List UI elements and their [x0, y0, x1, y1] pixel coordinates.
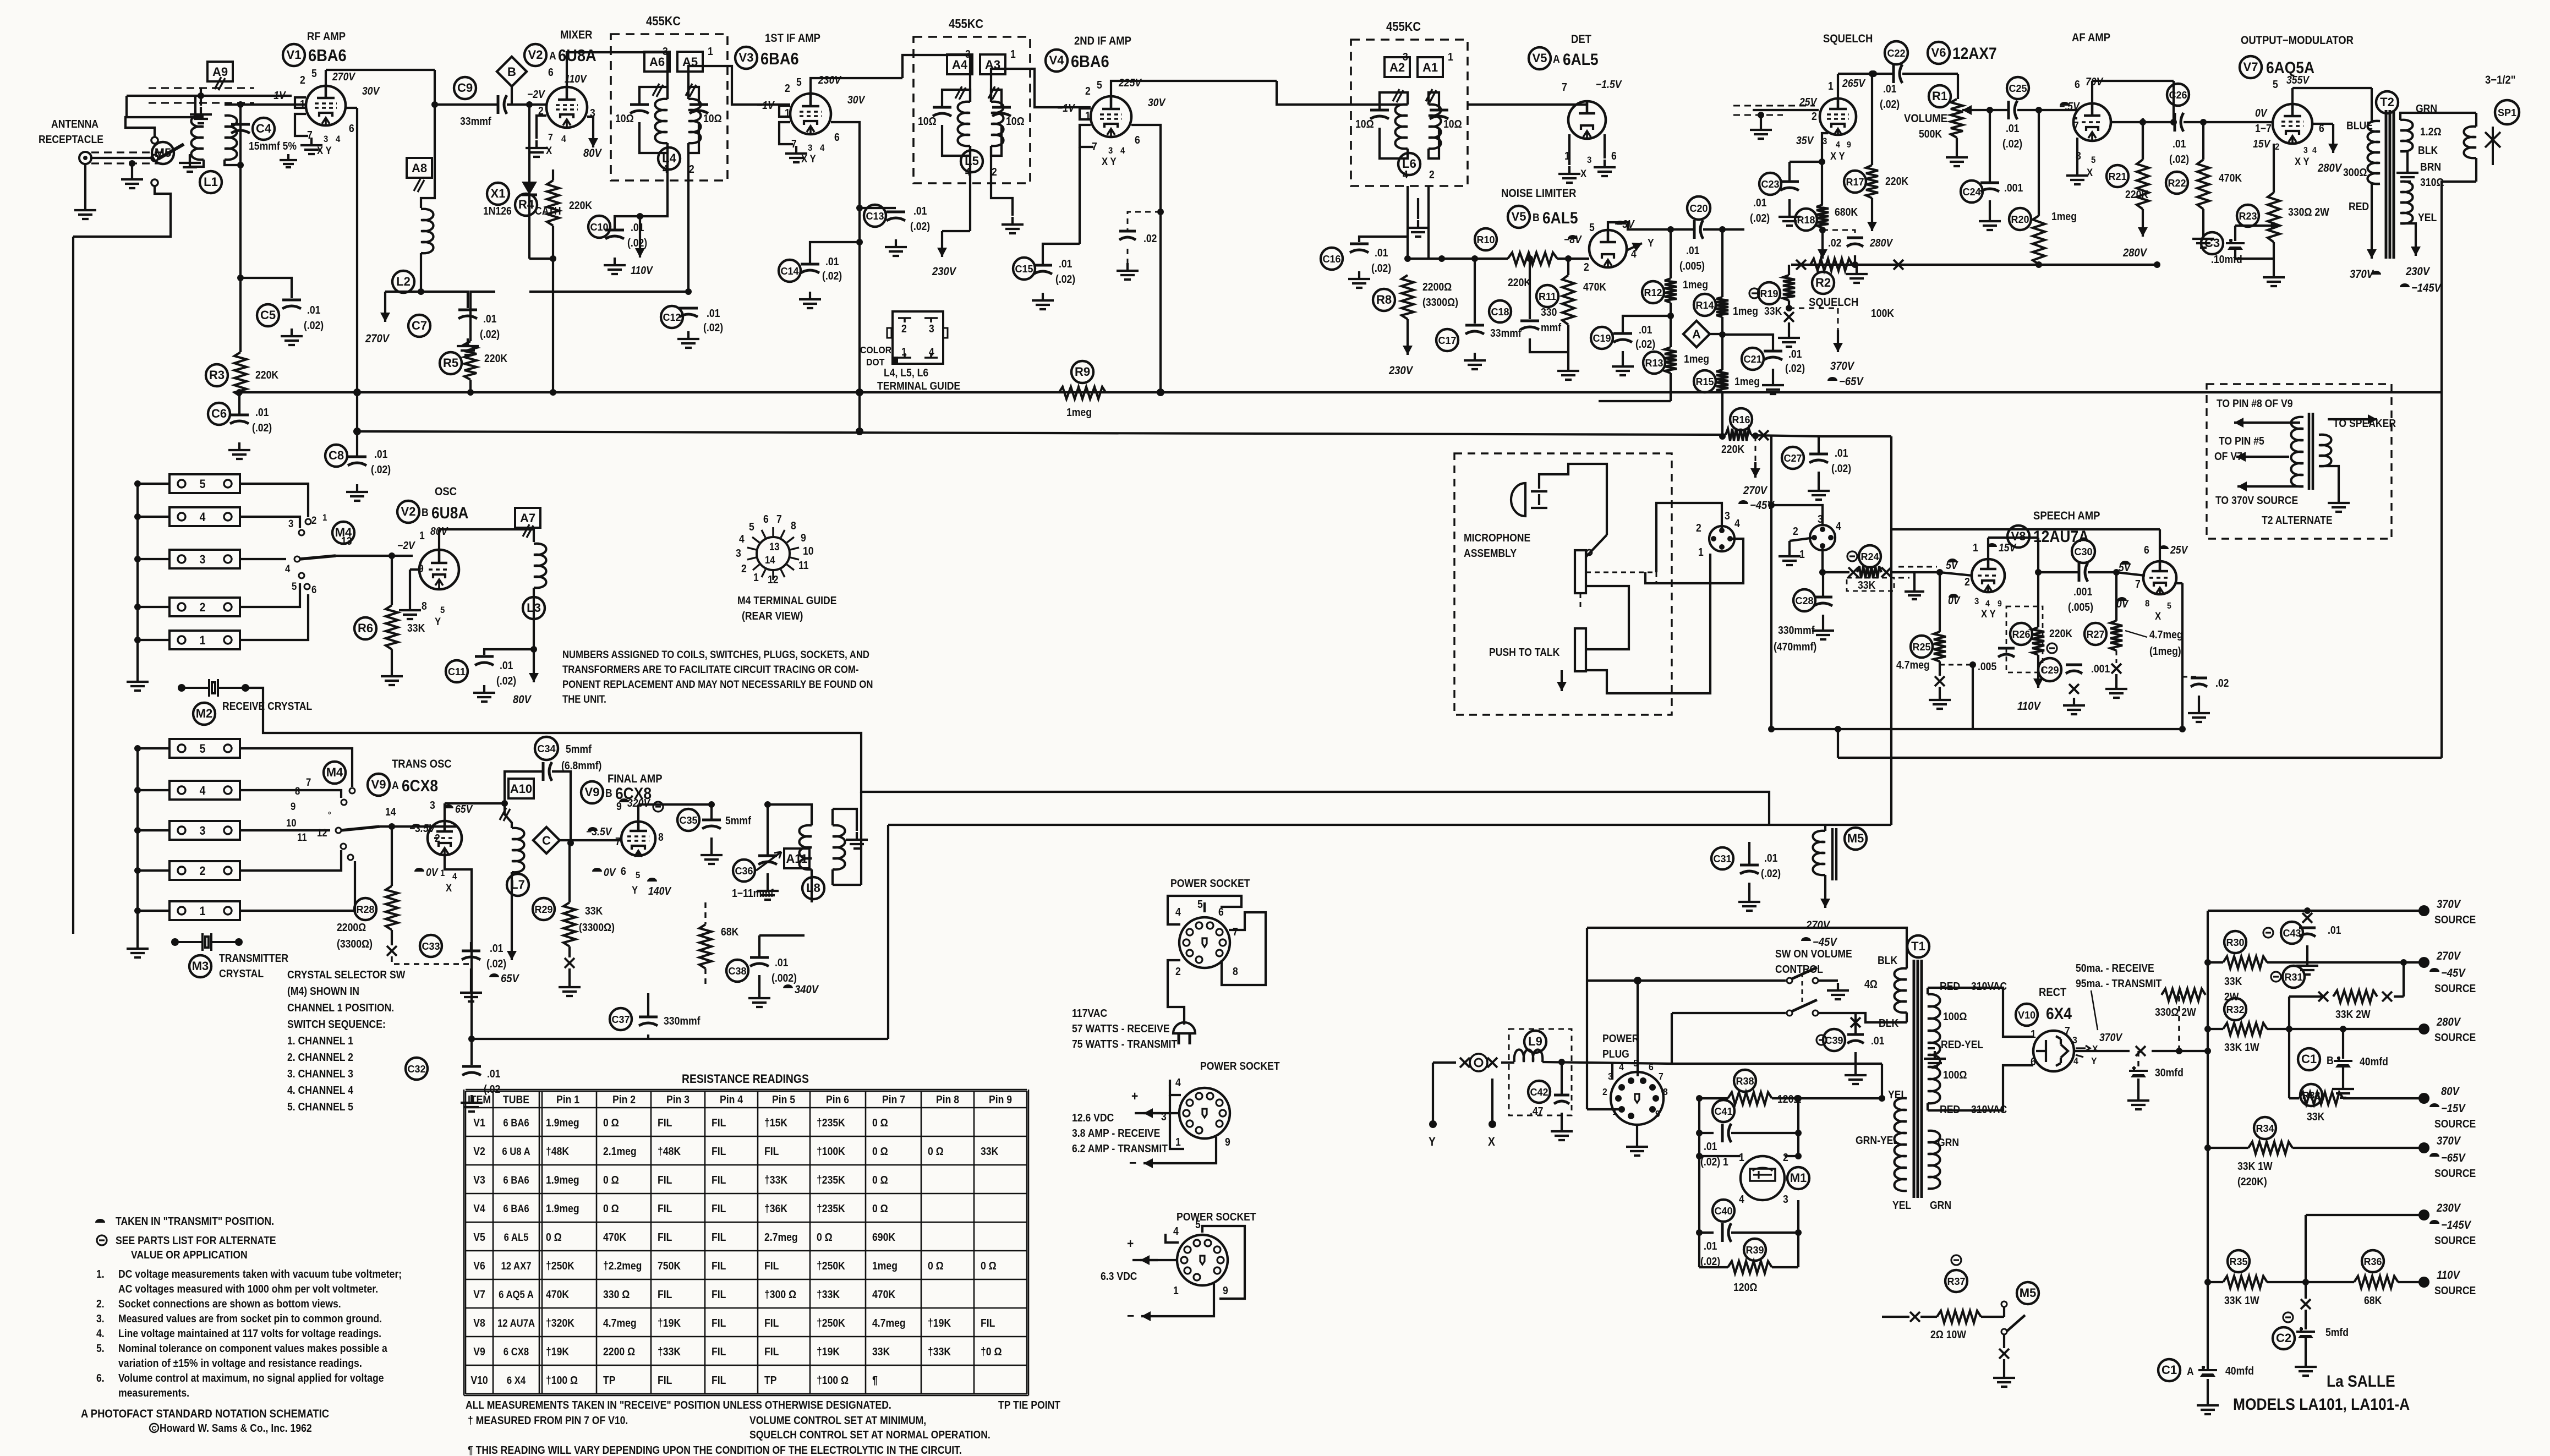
wire ch3 [240, 558, 286, 560]
designator L1 [200, 171, 222, 193]
svg-text:4: 4 [929, 346, 934, 358]
transformer T1 core [1914, 960, 1922, 1198]
svg-text:M5: M5 [1847, 831, 1864, 845]
wire riser to V8 plates [1890, 436, 1892, 529]
designator A6 [644, 52, 670, 72]
node B [497, 57, 527, 86]
svg-text:SEE PARTS LIST FOR ALTERNATE: SEE PARTS LIST FOR ALTERNATE [116, 1234, 276, 1246]
svg-text:100K: 100K [1871, 307, 1894, 319]
ground [190, 107, 212, 123]
svg-text:GRN-YEL: GRN-YEL [1856, 1134, 1899, 1146]
wire [811, 869, 813, 902]
designator C5 [257, 304, 279, 326]
designator C38 [726, 960, 748, 982]
wire [138, 558, 169, 560]
ground [701, 847, 723, 864]
designator L5 [961, 150, 983, 172]
svg-text:2: 2 [200, 601, 206, 614]
designator V6 [1928, 42, 1950, 64]
svg-text:FIL: FIL [712, 1345, 726, 1358]
coil L8 secondary [833, 825, 845, 869]
svg-text:0 Ω: 0 Ω [928, 1145, 944, 1157]
crystal holder channel 1 [169, 631, 240, 649]
socket 2 wires [1170, 1080, 1181, 1095]
svg-text:6BA6: 6BA6 [760, 50, 799, 68]
tube V10 6X4 rectifier [2033, 1031, 2074, 1071]
designator C34 [535, 737, 558, 760]
wire to C5 [240, 278, 292, 298]
svg-text:TP: TP [764, 1374, 776, 1386]
wire dashed to .02 [1128, 212, 1161, 230]
svg-text:1: 1 [1612, 1106, 1617, 1117]
svg-text:470K: 470K [2219, 172, 2242, 184]
svg-text:8: 8 [1663, 1086, 1668, 1097]
wire [2111, 121, 2143, 123]
coil T2alt primary [2291, 417, 2304, 486]
svg-text:4: 4 [285, 563, 290, 574]
wire [1818, 472, 1820, 483]
svg-text:2200 Ω: 2200 Ω [603, 1345, 635, 1358]
wire [239, 165, 242, 237]
wire [138, 910, 169, 912]
wire [1790, 161, 1822, 163]
wire [131, 163, 133, 172]
svg-text:†19K: †19K [817, 1345, 840, 1358]
IF transformer L6 dashed box [1351, 40, 1468, 186]
svg-text:V7: V7 [2243, 60, 2258, 74]
wire [2432, 112, 2476, 114]
wire [1567, 325, 1569, 363]
svg-text:1ST IF AMP: 1ST IF AMP [765, 32, 820, 45]
svg-text:2: 2 [741, 562, 747, 574]
wire [2343, 1097, 2424, 1099]
svg-text:Pin 9: Pin 9 [989, 1093, 1012, 1105]
svg-text:370V: 370V [2099, 1031, 2122, 1043]
capacitor C23 [1780, 180, 1799, 183]
svg-text:(M4) SHOWN IN: (M4) SHOWN IN [287, 985, 359, 997]
svg-text:5mfd: 5mfd [2325, 1326, 2349, 1338]
svg-text:110V: 110V [565, 73, 587, 85]
wire [1710, 333, 1722, 335]
junction [1558, 1059, 1565, 1065]
trimmer arrow A7 [523, 524, 533, 538]
wire [991, 125, 1002, 156]
wire [833, 809, 857, 831]
svg-text:THE UNIT.: THE UNIT. [562, 693, 606, 705]
capacitor C15 [1033, 264, 1052, 267]
table grid [464, 1090, 1028, 1395]
wire [1586, 586, 1629, 649]
tube V6B AF amp [2073, 103, 2111, 141]
svg-text:R4: R4 [518, 198, 534, 211]
svg-text:V7: V7 [473, 1288, 485, 1300]
svg-text:†250K: †250K [817, 1260, 845, 1272]
svg-text:270V: 270V [2436, 950, 2461, 962]
wire [435, 103, 498, 106]
junction [1526, 255, 1533, 262]
designator V9 [581, 781, 603, 803]
svg-text:4.7meg: 4.7meg [2149, 628, 2183, 641]
wire [1838, 73, 1894, 75]
svg-text:9: 9 [1847, 140, 1851, 150]
svg-text:C31: C31 [1713, 853, 1731, 864]
svg-text:0 Ω: 0 Ω [981, 1260, 997, 1272]
svg-text:Measured values are from socke: Measured values are from socket pin to c… [118, 1312, 382, 1324]
wire [767, 804, 769, 856]
wire [2179, 1050, 2208, 1052]
wire [1818, 979, 1838, 982]
svg-text:.01: .01 [1686, 244, 1699, 256]
capacitor C3 electrolytic [2226, 239, 2245, 243]
svg-text:5: 5 [200, 478, 206, 491]
switch M5 antenna changeover [151, 137, 158, 144]
junction [550, 255, 556, 262]
wire ch2 [240, 850, 341, 871]
designator C25 [2007, 77, 2029, 99]
svg-text:X: X [1488, 1135, 1495, 1148]
capacitor C7 [458, 309, 477, 311]
ground [1979, 214, 2001, 230]
svg-text:M5: M5 [155, 146, 172, 160]
wire [1854, 255, 1856, 265]
designator R4 [515, 194, 537, 216]
svg-text:C6: C6 [211, 407, 227, 420]
designator R9 [1071, 361, 1093, 383]
svg-text:−45V: −45V [1813, 936, 1837, 949]
svg-text:PUSH TO TALK: PUSH TO TALK [1489, 646, 1560, 658]
svg-text:1: 1 [1799, 548, 1805, 560]
svg-text:R30: R30 [2226, 937, 2244, 948]
wire [2207, 1282, 2209, 1370]
junction [856, 239, 863, 245]
wire to L3 [495, 529, 534, 542]
wire [445, 802, 505, 804]
wire [138, 747, 169, 749]
svg-text:.01: .01 [631, 221, 644, 233]
wire [2342, 1068, 2344, 1081]
node C [533, 827, 560, 853]
ground [677, 331, 699, 348]
wire [239, 278, 242, 352]
svg-text:(.02): (.02) [480, 328, 500, 340]
svg-text:.01: .01 [307, 304, 320, 316]
junction [1157, 388, 1164, 396]
resistor R18 [1816, 205, 1829, 228]
wire V4 screen down [1131, 125, 1161, 392]
svg-text:V10: V10 [2018, 1010, 2035, 1021]
svg-text:225V: 225V [1118, 76, 1142, 89]
transformer T2 core [2386, 110, 2394, 259]
coil T2alt secondary [2319, 435, 2332, 467]
svg-text:V4: V4 [473, 1202, 485, 1214]
wire shield dash [1898, 566, 1937, 568]
svg-text:12: 12 [317, 827, 327, 839]
wire [2181, 677, 2184, 729]
svg-text:5: 5 [311, 67, 317, 79]
svg-text:V5: V5 [1512, 210, 1526, 223]
svg-text:5. CHANNEL 5: 5. CHANNEL 5 [287, 1101, 353, 1113]
junction [1870, 70, 1877, 77]
svg-text:2: 2 [1584, 261, 1589, 273]
designator C21 [1742, 348, 1764, 370]
wire [1561, 1062, 1563, 1095]
svg-text:(.02): (.02) [496, 675, 516, 687]
wire [2116, 650, 2117, 663]
svg-text:.01: .01 [825, 255, 839, 267]
terminal 280V SOURCE [2418, 1023, 2429, 1034]
svg-text:3: 3 [1725, 510, 1730, 522]
designator R24 [1859, 545, 1881, 567]
svg-text:0 Ω: 0 Ω [817, 1231, 833, 1243]
junction [1471, 255, 1478, 262]
svg-text:MICROPHONE: MICROPHONE [1464, 532, 1530, 544]
ground [1827, 983, 1849, 999]
svg-text:R2: R2 [1815, 276, 1831, 289]
svg-text:B: B [605, 787, 612, 799]
svg-text:A: A [1553, 53, 1560, 65]
wire [1604, 134, 1606, 158]
wire [410, 568, 419, 571]
ground [461, 1095, 483, 1112]
svg-text:100Ω: 100Ω [1943, 1010, 1967, 1022]
designator M1 [1787, 1167, 1809, 1189]
designator C36 [733, 860, 755, 882]
wire [469, 380, 472, 392]
wire [472, 1038, 888, 1040]
svg-text:SOURCE: SOURCE [2434, 1284, 2476, 1296]
capacitor C24 [1980, 182, 1999, 184]
svg-text:R13: R13 [1645, 358, 1663, 369]
ground [1779, 209, 1801, 226]
designator C24 [1961, 180, 1983, 202]
designator C31 [1711, 847, 1733, 869]
wire ch4 [240, 790, 341, 798]
capacitor C21 [1764, 350, 1782, 353]
ground [559, 979, 581, 996]
junction [1819, 227, 1826, 233]
ground [1738, 894, 1760, 911]
designator R21 [2106, 165, 2128, 187]
svg-text:220K: 220K [1721, 443, 1744, 455]
wire [239, 105, 242, 165]
svg-text:6X4: 6X4 [2046, 1004, 2072, 1022]
svg-text:A10: A10 [510, 782, 532, 796]
wire B+ ladder bus [2207, 911, 2209, 1282]
fuse symbol [1470, 1054, 1487, 1071]
designator R11 [1536, 285, 1558, 307]
svg-text:TRANSFORMERS ARE TO FACILIT: TRANSFORMERS ARE TO FACILITATE CIRCUIT T… [562, 664, 858, 675]
wire [391, 826, 393, 886]
svg-text:1.9meg: 1.9meg [546, 1174, 579, 1186]
designator R39 [1744, 1239, 1766, 1261]
junction [1565, 255, 1572, 262]
svg-text:R19: R19 [1760, 288, 1778, 299]
wire [2289, 995, 2323, 998]
svg-text:3−1/2": 3−1/2" [2485, 74, 2515, 86]
wire [125, 96, 128, 118]
svg-text:Pin 1: Pin 1 [556, 1093, 579, 1105]
svg-text:9: 9 [801, 532, 806, 544]
svg-text:0 Ω: 0 Ω [872, 1145, 888, 1157]
wire dashed [1940, 664, 1973, 666]
junction [2340, 1026, 2346, 1032]
svg-text:ANTENNA: ANTENNA [51, 118, 99, 130]
designator C2 [2273, 1327, 2295, 1349]
wire [767, 873, 769, 883]
wire [1670, 373, 1672, 401]
svg-text:370V: 370V [2437, 1135, 2461, 1147]
svg-text:R14: R14 [1695, 300, 1714, 311]
wire T2alt sec return [2319, 466, 2339, 495]
wire [1927, 1103, 1929, 1110]
svg-text:5mmf: 5mmf [566, 743, 592, 755]
wire [238, 392, 240, 415]
svg-text:4. CHANNEL 4: 4. CHANNEL 4 [287, 1084, 353, 1096]
resistor R34 [2248, 1142, 2292, 1154]
svg-text:1−7: 1−7 [2255, 122, 2272, 134]
svg-text:FIL: FIL [712, 1260, 726, 1272]
junction [501, 800, 508, 807]
svg-text:470K: 470K [603, 1231, 626, 1243]
svg-text:33K: 33K [407, 622, 425, 634]
wire [2292, 1147, 2424, 1149]
svg-text:0 Ω: 0 Ω [603, 1116, 619, 1129]
svg-text:4: 4 [1985, 599, 1990, 609]
wire [2003, 1359, 2005, 1370]
wire [138, 516, 169, 518]
svg-text:†100 Ω: †100 Ω [546, 1374, 578, 1386]
wire L4 pin1 to V3 grid [688, 66, 790, 105]
svg-text:1.: 1. [96, 1268, 105, 1280]
svg-text:2: 2 [200, 864, 206, 878]
designator A2 [1385, 57, 1410, 77]
wire [1988, 537, 2038, 539]
svg-text:330 Ω: 330 Ω [603, 1288, 630, 1300]
wire [2207, 1379, 2209, 1398]
wire [2292, 87, 2372, 89]
power socket 3 [1177, 1235, 1228, 1285]
svg-text:9: 9 [1998, 599, 2002, 609]
svg-text:310VAC: 310VAC [1971, 980, 2007, 992]
svg-text:3: 3 [1587, 155, 1591, 165]
svg-text:2200Ω: 2200Ω [1422, 281, 1452, 293]
ground [1612, 359, 1634, 375]
switch M5 heater [2001, 1301, 2007, 1307]
svg-text:1: 1 [901, 346, 907, 358]
svg-text:POWER SOCKET: POWER SOCKET [1200, 1060, 1280, 1072]
wire bus y1377 [1838, 757, 2442, 759]
junction [856, 205, 863, 211]
wire to L7 [505, 803, 512, 828]
svg-text:R20: R20 [2011, 214, 2029, 225]
wire [1408, 258, 1442, 260]
svg-text:VOLUME: VOLUME [1904, 112, 1947, 125]
wire [639, 122, 667, 153]
wire [1981, 1316, 2004, 1318]
wire [942, 230, 970, 232]
svg-text:265V: 265V [1842, 77, 1865, 89]
svg-text:FIL: FIL [712, 1116, 726, 1129]
svg-text:C11: C11 [448, 666, 466, 677]
designator M2 [193, 703, 215, 725]
svg-text:B: B [2327, 1054, 2334, 1066]
terminal 80V SOURCE [2418, 1093, 2429, 1104]
wire pin5 stub [1203, 902, 1206, 912]
svg-text:X: X [446, 882, 452, 894]
wire [1722, 228, 1744, 231]
svg-text:C1: C1 [2162, 1363, 2177, 1377]
svg-text:6BA6: 6BA6 [308, 46, 347, 65]
svg-text:C14: C14 [780, 266, 798, 277]
svg-text:A: A [2187, 1365, 2194, 1377]
junction [1667, 226, 1674, 233]
svg-text:3: 3 [430, 799, 435, 811]
svg-text:A: A [392, 779, 399, 791]
wire [1772, 369, 1774, 377]
wire [1748, 883, 1750, 894]
wire [2289, 1097, 2299, 1099]
svg-text:A8: A8 [412, 161, 427, 175]
pointer line R27 [2125, 631, 2147, 637]
svg-text:12AX7: 12AX7 [1952, 43, 1997, 62]
junction [1768, 726, 1775, 732]
capacitor C27 [1809, 453, 1828, 456]
designator C26 [2167, 84, 2189, 106]
ground [2332, 1081, 2354, 1098]
svg-text:4: 4 [2312, 145, 2317, 155]
tube V2B 6U8A oscillator [419, 550, 459, 589]
wire [2208, 1147, 2248, 1149]
wire [225, 103, 240, 106]
svg-text:4: 4 [1836, 520, 1841, 532]
svg-text:2: 2 [1175, 965, 1181, 977]
svg-text:R28: R28 [356, 904, 374, 915]
tube V9B 6CX8 final amp [621, 822, 655, 856]
svg-text:6BA6: 6BA6 [1071, 52, 1109, 71]
wire [710, 838, 713, 847]
svg-text:30V: 30V [1148, 96, 1166, 108]
wire to C21 [1722, 335, 1773, 350]
ground [846, 832, 868, 849]
wire [2003, 1334, 2005, 1348]
wire [2115, 674, 2117, 681]
capacitor C6 [230, 414, 249, 417]
junction [237, 101, 244, 108]
wire [1491, 1079, 1493, 1124]
crystal holder channel 2 [169, 598, 240, 616]
arrow to 80V [592, 124, 594, 147]
wire [552, 259, 554, 342]
junction [2204, 1279, 2211, 1285]
svg-text:1: 1 [322, 513, 327, 523]
junction [1667, 313, 1674, 319]
resistor R15 [1716, 370, 1728, 392]
svg-text:C21: C21 [1743, 354, 1761, 365]
svg-text:.01: .01 [775, 956, 788, 968]
svg-text:9: 9 [1655, 1108, 1660, 1119]
svg-text:33K: 33K [872, 1345, 890, 1358]
svg-text:1.9meg: 1.9meg [546, 1202, 579, 1214]
svg-text:2.1meg: 2.1meg [603, 1145, 637, 1157]
svg-text:L2: L2 [396, 275, 411, 288]
svg-text:.01: .01 [1764, 852, 1777, 864]
svg-text:230V: 230V [2405, 265, 2431, 278]
junction [418, 288, 424, 295]
L9 C42 dashed box [1509, 1029, 1572, 1115]
resistor R1 volume pot [1951, 99, 1963, 138]
svg-text:5.: 5. [96, 1342, 105, 1354]
wire to L2 [421, 105, 435, 208]
